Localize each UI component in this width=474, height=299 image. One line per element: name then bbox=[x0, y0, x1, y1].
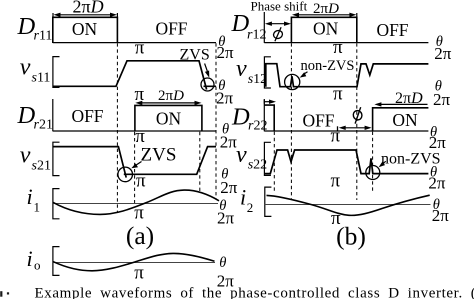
svg-text:ON: ON bbox=[313, 19, 339, 39]
label phi row1 right bbox=[273, 27, 284, 41]
svg-text:π: π bbox=[331, 171, 341, 192]
arrow 2piD row1 left bbox=[53, 13, 117, 18]
svg-text:ON: ON bbox=[156, 109, 182, 129]
label vs11 bbox=[20, 54, 51, 85]
label Dr21 bbox=[17, 102, 53, 132]
svg-text:non-ZVS: non-ZVS bbox=[301, 58, 355, 74]
zero line io bbox=[53, 262, 215, 264]
svg-text:ON: ON bbox=[392, 110, 418, 130]
arrow 2piD row3 right bbox=[374, 102, 427, 106]
label io bbox=[27, 246, 41, 273]
svg-text:r21: r21 bbox=[34, 118, 53, 133]
svg-text:2: 2 bbox=[247, 200, 254, 215]
label i2 bbox=[240, 184, 253, 214]
svg-text:2π: 2π bbox=[220, 132, 238, 151]
svg-text:r12: r12 bbox=[247, 28, 266, 43]
caption period bbox=[7, 292, 9, 294]
axis baseline Dr11 bbox=[53, 42, 216, 44]
axis riser Dr21 bbox=[52, 99, 54, 131]
dashed line phi right bbox=[290, 43, 292, 200]
label Dr22 bbox=[231, 104, 267, 134]
svg-text:π: π bbox=[134, 263, 144, 284]
waveform box Dr21 ON bbox=[135, 105, 202, 131]
svg-text:v: v bbox=[20, 54, 31, 80]
arrow 2piD row3 left bbox=[135, 101, 201, 105]
svg-text:v: v bbox=[236, 56, 247, 82]
waveform vs21 bbox=[53, 147, 216, 178]
pi tick Dr22 bbox=[337, 126, 339, 131]
svg-text:ZVS: ZVS bbox=[180, 47, 210, 64]
axis bracket vs11 bbox=[53, 57, 60, 88]
ZVS circle vs21 bbox=[118, 167, 133, 182]
axis bracket vs21 bbox=[53, 142, 60, 175]
axis bracket io bbox=[53, 247, 60, 276]
svg-text:OFF: OFF bbox=[71, 106, 103, 126]
dashed line phi+2piD right bbox=[356, 43, 358, 200]
svg-text:π: π bbox=[333, 83, 343, 104]
dashed line pi+phi right bbox=[372, 132, 374, 193]
svg-text:v: v bbox=[20, 142, 31, 168]
axis riser Dr12 bbox=[263, 12, 265, 43]
svg-text:2π: 2π bbox=[216, 88, 234, 107]
label vs12 bbox=[236, 56, 267, 87]
arrow to ZVS circle row4 bbox=[131, 162, 141, 169]
svg-text:1: 1 bbox=[34, 200, 41, 215]
svg-text:2πD: 2πD bbox=[73, 0, 104, 17]
svg-text:π: π bbox=[136, 170, 146, 191]
arrow to non-ZVS circle row2 bbox=[300, 72, 308, 78]
dashed line pi left bbox=[134, 132, 136, 206]
svg-text:π: π bbox=[331, 126, 341, 147]
svg-text:i: i bbox=[27, 184, 33, 209]
label Dr11 bbox=[17, 13, 53, 43]
svg-text:2π: 2π bbox=[217, 43, 235, 62]
svg-text:OFF: OFF bbox=[155, 19, 187, 39]
waveform box Dr22 ON bbox=[373, 108, 429, 132]
axis baseline Dr22 bbox=[264, 130, 428, 132]
svg-text:i: i bbox=[27, 246, 33, 271]
caption fragment mark bbox=[0, 291, 2, 297]
label vs22 bbox=[236, 142, 267, 173]
axis bracket i1 bbox=[53, 189, 60, 219]
svg-text:2π: 2π bbox=[220, 178, 238, 197]
zero line i1 bbox=[53, 203, 218, 205]
label phi row3 right bbox=[352, 107, 363, 123]
svg-text:2π: 2π bbox=[428, 173, 446, 192]
dashed line 2pi left bbox=[215, 43, 217, 199]
svg-text:2π: 2π bbox=[433, 90, 451, 109]
svg-text:(a): (a) bbox=[126, 221, 154, 250]
axis baseline Dr21 bbox=[53, 130, 216, 132]
svg-text:(b): (b) bbox=[336, 221, 366, 250]
arrow to ZVS circle row2 bbox=[205, 64, 210, 78]
axis baseline Dr12 bbox=[264, 42, 428, 44]
axis bracket vs22 bbox=[264, 142, 271, 175]
zero line i2 bbox=[265, 204, 431, 206]
svg-text:Example waveforms of the phase: Example waveforms of the phase-controlle… bbox=[35, 286, 474, 299]
waveform pulse Dr22 start bbox=[264, 105, 274, 131]
non-ZVS circle vs12 bbox=[285, 74, 300, 89]
axis riser Dr22 bbox=[263, 99, 265, 131]
waveform vs11 bbox=[53, 61, 216, 90]
ZVS circle vs11 bbox=[201, 78, 214, 91]
dashed line 2piD left bbox=[116, 43, 118, 213]
svg-text:Phase shift: Phase shift bbox=[251, 0, 308, 13]
svg-text:i: i bbox=[240, 184, 246, 209]
label i1 bbox=[27, 184, 41, 214]
svg-text:OFF: OFF bbox=[376, 20, 408, 40]
svg-text:π: π bbox=[333, 37, 343, 58]
svg-text:θ: θ bbox=[219, 255, 226, 271]
svg-text:s21: s21 bbox=[32, 159, 51, 174]
axis bracket vs12 bbox=[264, 57, 271, 88]
waveform vs22 bbox=[264, 150, 428, 174]
waveform vs12 bbox=[266, 64, 429, 87]
axis bracket i2 bbox=[265, 187, 272, 216]
arrow phi row1 right bbox=[265, 22, 291, 26]
waveform io sine bbox=[53, 253, 214, 270]
svg-text:ZVS: ZVS bbox=[141, 144, 177, 165]
svg-text:2πD: 2πD bbox=[395, 90, 423, 107]
svg-text:v: v bbox=[236, 142, 247, 168]
waveform box Dr12 ON bbox=[291, 17, 356, 43]
svg-text:2πD: 2πD bbox=[158, 88, 184, 104]
arrow 2piD row1 right bbox=[292, 13, 357, 18]
svg-text:2π: 2π bbox=[434, 44, 452, 63]
svg-text:π: π bbox=[135, 38, 145, 59]
waveform i1 sine bbox=[53, 190, 219, 214]
svg-text:2π: 2π bbox=[429, 133, 447, 152]
svg-text:s11: s11 bbox=[32, 71, 51, 86]
waveform i2 sine bbox=[267, 195, 430, 215]
svg-text:ON: ON bbox=[72, 19, 98, 39]
dashed line wrap-end right bbox=[273, 132, 275, 193]
dashed line pi+2piD left bbox=[199, 132, 201, 192]
arrow to non-ZVS circle row4 bbox=[379, 161, 386, 167]
waveform box Dr11 ON bbox=[53, 17, 118, 43]
svg-text:o: o bbox=[34, 258, 41, 273]
arrow phi row3 right bbox=[339, 126, 372, 130]
non-ZVS circle vs22 bbox=[366, 166, 380, 180]
svg-text:2π: 2π bbox=[217, 208, 235, 227]
svg-text:2π: 2π bbox=[432, 206, 450, 225]
label vs21 bbox=[20, 142, 51, 173]
svg-text:r11: r11 bbox=[34, 29, 53, 44]
arrow wrap pulse Dr22 bbox=[264, 100, 276, 104]
